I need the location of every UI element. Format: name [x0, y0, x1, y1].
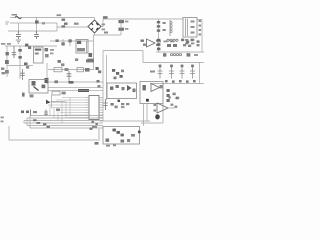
marks below box C — [106, 145, 110, 147]
resistor pair right of HV bus — [96, 67, 99, 70]
U1 pins right — [99, 98, 103, 118]
snubber network marks — [141, 40, 144, 42]
lower row marks — [111, 103, 114, 106]
T1 core lines — [186, 19, 188, 37]
box C (output stage) — [103, 127, 140, 145]
box A parts — [110, 87, 113, 90]
label 5R5 — [150, 71, 155, 73]
ground GND1 — [16, 40, 21, 43]
diode D20 — [18, 49, 21, 52]
transistor Q10 dark blob — [155, 114, 160, 119]
capacitor C5 — [119, 20, 124, 23]
label dashes left — [50, 49, 54, 51]
wire center vertical A — [102, 51, 104, 122]
box B parts — [143, 85, 146, 90]
wire box B drop a — [143, 104, 145, 127]
T2 winding mark — [77, 41, 81, 44]
mark right of R10 — [65, 68, 69, 71]
wire bridge output — [101, 19, 183, 27]
rectifier column — [158, 36, 160, 52]
comparator U2A — [147, 39, 156, 47]
top dots right — [169, 96, 171, 98]
cluster dashes — [33, 111, 37, 113]
wire double rail a — [48, 87, 103, 89]
resistor box R11 — [77, 68, 84, 72]
zener ZD1 — [24, 63, 28, 66]
bus left ends — [24, 116, 30, 129]
cap label marks — [125, 21, 128, 23]
choke L2 — [170, 54, 172, 56]
right pair marks — [197, 40, 200, 42]
wire T3 secondary — [46, 63, 48, 84]
wire vertical left — [6, 46, 8, 77]
marks right of column — [173, 93, 176, 96]
wire E (lower line) — [8, 30, 57, 32]
filter cap bank 4 — [190, 65, 195, 79]
wire to bridge — [57, 23, 88, 31]
box C right edge dot — [138, 131, 141, 134]
bus outer loop — [9, 126, 98, 140]
transformer T2 — [76, 40, 88, 54]
wire N (mid AC line) — [10, 22, 57, 24]
wire drop d — [61, 103, 63, 124]
T2 lower mark — [77, 48, 85, 51]
bus label GND — [47, 126, 50, 128]
resistor R22 — [5, 70, 9, 74]
transistor Q3 — [25, 44, 28, 47]
plug marks — [6, 22, 10, 24]
U1 pin fan wires — [48, 98, 85, 118]
transformer T3 — [34, 47, 44, 63]
arrow component (SCR) — [46, 100, 51, 105]
resistor column right — [167, 89, 170, 92]
label row under T1 — [157, 41, 161, 43]
marks above T2 — [75, 58, 78, 61]
snubber C — [62, 39, 64, 46]
T3 winding marks — [35, 49, 42, 51]
wire standby top — [5, 45, 57, 47]
bus wire 3 — [24, 120, 103, 122]
bus wire 6 — [30, 127, 103, 129]
box A comparator — [127, 85, 132, 91]
wire lower long — [48, 81, 103, 83]
resistor R0 marks — [74, 23, 79, 25]
wire right edge drop — [199, 63, 201, 85]
op-amp U3 — [157, 103, 168, 113]
wire doubler caps — [94, 19, 122, 35]
row2 marks — [163, 53, 166, 56]
wire L (top AC line) — [10, 17, 95, 19]
capacitor C22 — [45, 78, 49, 83]
capacitor C30 — [103, 99, 108, 110]
diodes under choke — [167, 44, 171, 47]
bridge diode marks — [91, 23, 98, 30]
dark component bar — [78, 89, 89, 92]
row2 mark b — [187, 53, 191, 56]
bus wire 5 — [27, 125, 103, 127]
U3 right marks — [171, 104, 174, 106]
cluster mid-left — [58, 60, 61, 63]
snubber D — [69, 39, 71, 46]
wire drop f — [69, 98, 71, 116]
box B (opto feedback) — [140, 82, 163, 104]
base parts — [85, 59, 87, 61]
bus label -12V — [37, 122, 41, 124]
bus label -5V — [33, 119, 37, 121]
wire drop e — [65, 100, 67, 118]
capacitor C21 — [20, 69, 25, 80]
wire output row boundary — [143, 62, 204, 64]
marks on lower wire — [55, 80, 58, 83]
resistor marks right of column — [163, 22, 166, 24]
T3 secondary parts — [45, 48, 49, 51]
marks right — [56, 109, 60, 111]
comparator marks — [156, 40, 159, 42]
wire X-cap stub — [18, 18, 36, 32]
bottom row dots — [165, 80, 168, 82]
wire to op-amp — [141, 122, 163, 124]
capacitor CY1 — [16, 31, 21, 39]
bus label PG — [43, 123, 46, 125]
label marks left — [1, 43, 5, 45]
winding primary W1 — [169, 20, 171, 36]
resistor box R10 — [54, 68, 62, 72]
filter cap bank 3 — [180, 65, 185, 79]
wire bridge bottom / HV bus — [94, 33, 95, 70]
marks left of box C — [90, 128, 93, 130]
resistor R20 — [6, 52, 9, 55]
box B comparator — [151, 84, 160, 92]
fuse F1 — [15, 16, 21, 18]
box D led mark — [32, 81, 36, 86]
wire drop b — [53, 108, 55, 119]
choke CM marks — [62, 19, 66, 21]
rectifier cluster marks — [181, 39, 184, 42]
gate resistor marks — [97, 80, 100, 83]
wire drive top — [50, 40, 94, 42]
wire drive mid — [48, 69, 94, 71]
box D (optocoupler) — [29, 80, 48, 94]
primary column parts — [158, 19, 160, 36]
wire mid horizontal — [103, 51, 143, 63]
snubber R mark — [56, 39, 59, 42]
T1 secondary marks — [199, 20, 202, 22]
filter cap bank 2 — [169, 65, 174, 79]
transistor Q1 — [89, 53, 93, 57]
resistor R21 — [5, 60, 9, 64]
capacitor C20 — [12, 46, 16, 58]
CX1 label — [42, 22, 45, 24]
wire center vertical B — [106, 55, 108, 100]
U1 pins left — [85, 98, 89, 118]
wire lower mid — [100, 120, 150, 122]
marks below box D — [22, 93, 25, 97]
wire bridge top stub — [94, 18, 96, 21]
transformer T1 — [183, 18, 197, 38]
diode D21 — [18, 56, 21, 59]
U1 bottom marks — [92, 121, 94, 123]
capacitor C31 — [44, 110, 48, 117]
marks right of R11 — [85, 68, 90, 72]
bus wire 4 — [24, 122, 103, 124]
T1 winding marks — [191, 21, 195, 23]
bus wire 2 — [27, 117, 103, 119]
wire box B drop b — [146, 104, 148, 122]
wire drop a — [49, 105, 51, 116]
filter cap bank 1 — [158, 65, 163, 79]
capacitor CX1 — [35, 20, 39, 23]
varistor marks — [103, 16, 108, 18]
marks right of R12 — [62, 92, 66, 95]
U3 input marks — [154, 104, 157, 106]
box D arrow — [34, 87, 39, 91]
wire output bottom — [150, 83, 204, 85]
lower-left cluster — [21, 111, 24, 114]
IC U1 (PWM controller) — [89, 96, 99, 120]
wire right vertical — [162, 86, 164, 123]
wire standby mid — [7, 65, 33, 67]
wire vertical x20 — [19, 46, 21, 79]
bridge rectifier BR1 — [88, 20, 101, 33]
T2 core line — [86, 41, 88, 53]
box A (supervisor) — [107, 83, 137, 99]
choke L1 — [167, 39, 169, 41]
box C transistor diag — [113, 129, 116, 132]
diode cluster D5-D8 — [112, 69, 115, 72]
junction dot dark — [146, 99, 149, 102]
cluster bottom-left marks — [1, 68, 4, 70]
wire output row1 — [156, 51, 204, 53]
bus wire 1 — [30, 115, 103, 117]
wire T1 right — [197, 20, 202, 53]
label above choke — [57, 14, 62, 16]
wire double rail b — [48, 89, 103, 91]
capacitor C7 — [67, 71, 72, 81]
wire from SCR — [51, 95, 66, 108]
resistor box R12 — [52, 91, 60, 95]
U3 output wire — [168, 107, 175, 109]
label pairs under T1 — [185, 39, 188, 41]
capacitor C6 — [119, 28, 124, 31]
label 220V — [12, 14, 18, 16]
box C marks — [106, 139, 110, 142]
junction dot 2 — [118, 100, 120, 102]
box D transistor mark — [42, 85, 46, 89]
edge label marks — [1, 117, 4, 119]
capacitor CY2 — [34, 31, 39, 39]
wire drop c — [57, 110, 59, 121]
